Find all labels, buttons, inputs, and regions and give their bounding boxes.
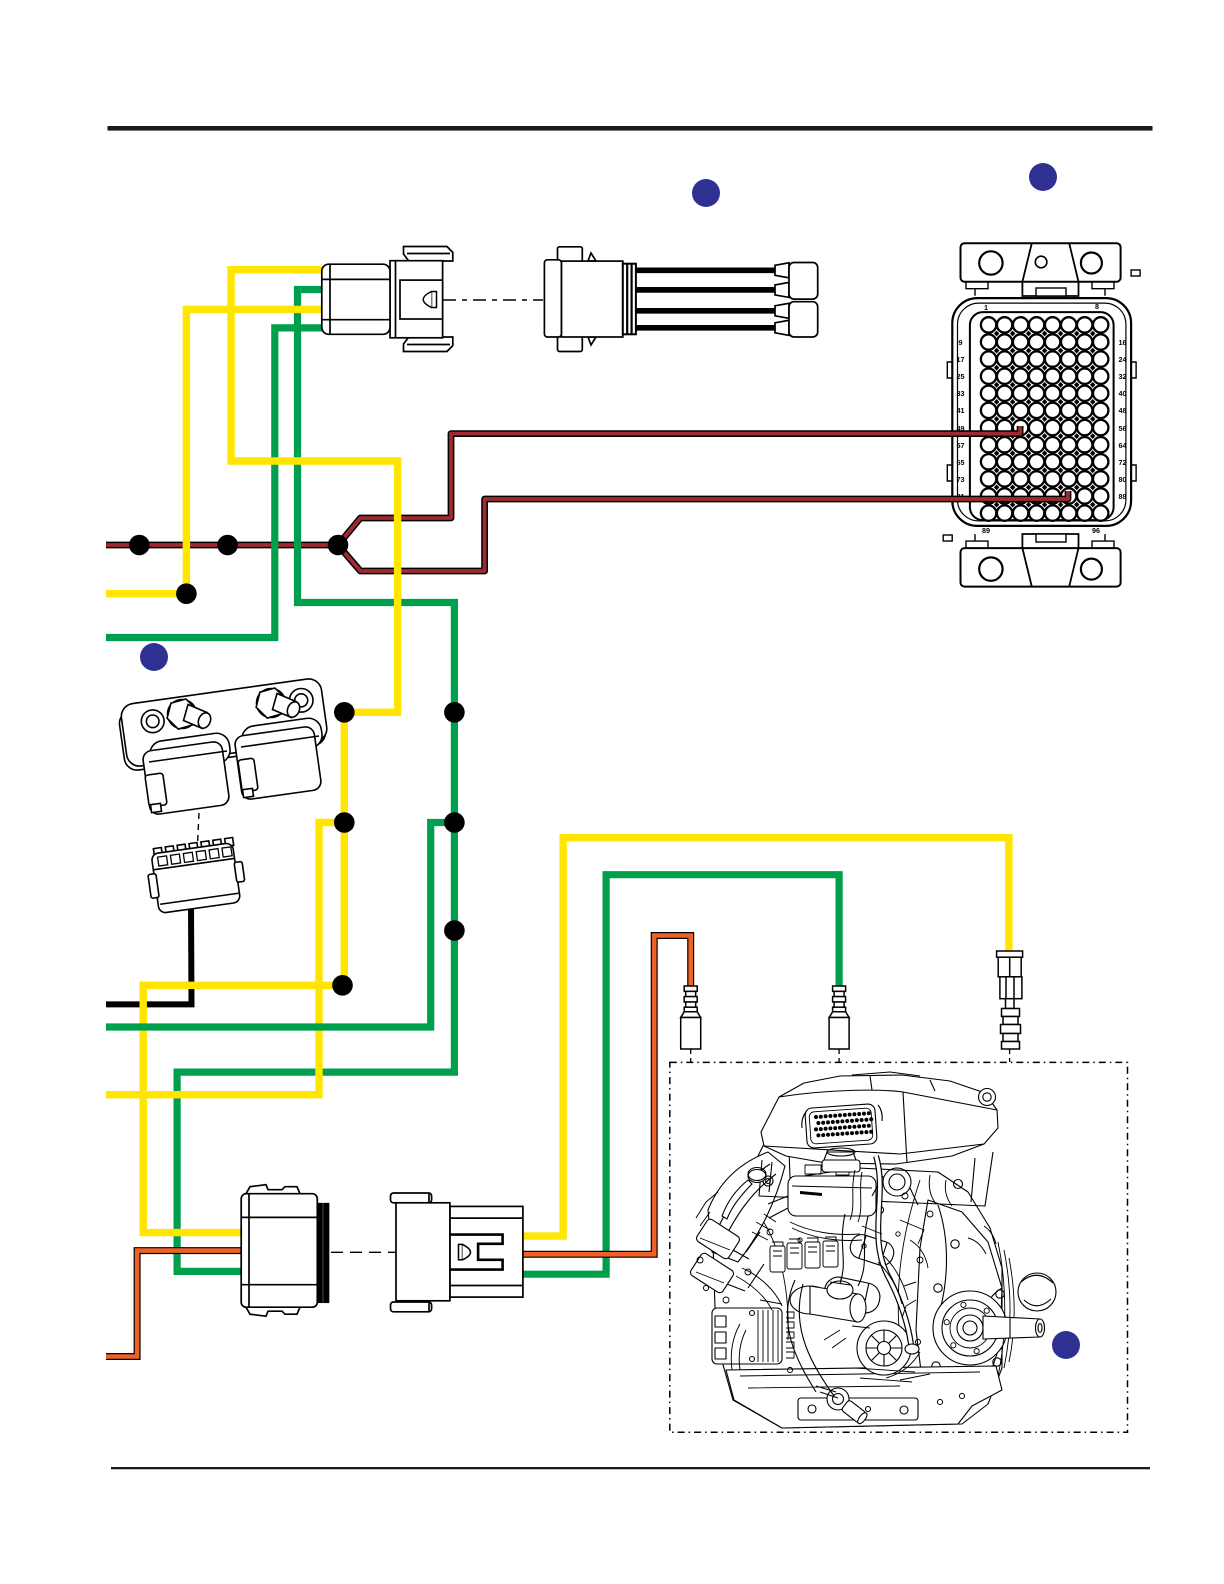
ECU pin grid 96 cavities	[981, 317, 1109, 521]
wire green to engine bullet 2	[515, 875, 839, 1274]
callout dot 2	[1029, 163, 1057, 191]
bottom rule	[111, 1467, 1150, 1469]
wire red trunk from left edge (net R)	[106, 542, 338, 549]
relay K2	[240, 717, 323, 758]
inline terminal E3 (yellow)	[997, 951, 1023, 1049]
callout dot 4	[1052, 1331, 1080, 1359]
ECU pin number labels	[957, 302, 1127, 535]
wire green A main run	[177, 290, 454, 1272]
svg-text:1: 1	[984, 303, 988, 312]
connector P5 8-pin (to relay)	[144, 837, 247, 915]
svg-text:57: 57	[957, 441, 965, 450]
svg-text:72: 72	[1119, 458, 1127, 467]
svg-text:33: 33	[957, 389, 965, 398]
svg-text:48: 48	[1119, 406, 1127, 415]
svg-text:40: 40	[1119, 389, 1127, 398]
wire green E branch to left edge	[106, 823, 454, 1028]
wire yellow A long run to bottom connector	[143, 270, 397, 1233]
svg-text:17: 17	[957, 355, 965, 364]
bullet terminal E2 (green)	[829, 986, 849, 1049]
svg-text:65: 65	[957, 458, 965, 467]
stud terminal 1	[168, 700, 197, 729]
wire yellow to engine bullet 3	[515, 838, 1009, 1236]
connector P1 male (top pair left)	[322, 247, 453, 352]
wire orange to engine bullet 1	[515, 936, 691, 1255]
relay K1	[148, 732, 231, 773]
wire green B to left edge	[106, 328, 330, 638]
splice junction dots	[129, 535, 465, 996]
svg-text:16: 16	[1119, 338, 1127, 347]
bullet terminal E1 (orange)	[681, 986, 701, 1049]
svg-text:56: 56	[1119, 424, 1127, 433]
svg-text:9: 9	[959, 338, 963, 347]
ring terminal eye 2	[289, 689, 313, 713]
wire yellow B to left edge	[106, 309, 330, 593]
relay bracket plate	[118, 677, 329, 815]
wire yellow D branch to left edge	[106, 823, 344, 1095]
callout dot 3	[140, 643, 168, 671]
connector P2 female (top pair right)	[544, 247, 635, 352]
wire black from 8-pin connector to left edge	[106, 905, 192, 1004]
top rule	[108, 126, 1153, 131]
svg-text:41: 41	[957, 406, 965, 415]
wire orange from bottom connector to left edge	[106, 1251, 250, 1357]
mate line relay connector	[198, 813, 200, 844]
wire red branch 2 to ECU pin 86	[338, 491, 1068, 571]
mate line P1-P2	[443, 299, 543, 301]
svg-text:24: 24	[1119, 355, 1127, 364]
mate line P3-P4	[331, 1251, 396, 1253]
black jumper wires to terminal lugs	[636, 270, 777, 328]
svg-text:8: 8	[1095, 302, 1099, 311]
svg-text:80: 80	[1119, 475, 1127, 484]
wire red branch 1 to ECU pin 51	[338, 426, 1020, 545]
connector P4 female (bottom pair right)	[391, 1193, 523, 1312]
terminal lug T1	[775, 263, 818, 300]
terminal lug T2	[775, 302, 818, 337]
callout dot 1	[692, 179, 720, 207]
svg-text:32: 32	[1119, 372, 1127, 381]
connector P3 male with seal (bottom pair left)	[241, 1185, 328, 1317]
svg-text:64: 64	[1119, 441, 1127, 450]
connector J2 ECU 96-pin	[943, 243, 1140, 586]
engine dashed outline box	[670, 1062, 1128, 1432]
stud terminal 2	[257, 689, 286, 718]
svg-text:88: 88	[1119, 492, 1127, 501]
svg-text:89: 89	[982, 526, 990, 535]
engine illustration	[689, 1072, 1056, 1428]
svg-text:73: 73	[957, 475, 965, 484]
ring terminal eye 1	[141, 710, 164, 733]
svg-text:96: 96	[1092, 526, 1100, 535]
svg-text:25: 25	[957, 372, 965, 381]
